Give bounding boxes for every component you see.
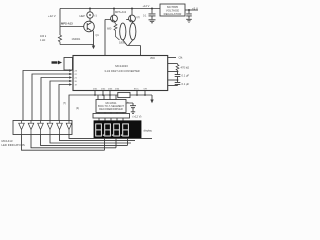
svg-text:display: display <box>144 128 153 132</box>
svg-text:1N4001: 1N4001 <box>72 38 81 41</box>
svg-text:23: 23 <box>75 70 78 72</box>
svg-text:EOC: EOC <box>134 89 139 91</box>
svg-text:(7): (7) <box>63 102 66 105</box>
svg-text:MPS-A13: MPS-A13 <box>115 10 127 14</box>
svg-text:MC14433: MC14433 <box>115 64 128 68</box>
svg-text:1850: 1850 <box>119 40 126 44</box>
svg-text:0.1: 0.1 <box>143 15 147 18</box>
svg-text:+12 V: +12 V <box>143 4 150 8</box>
svg-text:0.1 μF: 0.1 μF <box>182 74 190 78</box>
svg-text:VDD: VDD <box>150 58 155 60</box>
svg-text:19: 19 <box>75 84 78 86</box>
svg-text:20: 20 <box>75 81 78 83</box>
svg-text:(-): (-) <box>95 14 98 18</box>
svg-text:Clk: Clk <box>179 56 184 60</box>
svg-text:1 kΩ: 1 kΩ <box>40 39 45 42</box>
svg-text:+5 V: +5 V <box>192 6 198 10</box>
svg-text:0.1 μF: 0.1 μF <box>182 82 190 86</box>
svg-text:LED INDICATORS: LED INDICATORS <box>2 143 25 147</box>
svg-text:100 k: 100 k <box>40 35 47 38</box>
svg-text:REGULATOR: REGULATOR <box>164 12 182 16</box>
svg-text:(4): (4) <box>76 107 79 110</box>
svg-text:470 kΩ: 470 kΩ <box>181 66 190 70</box>
svg-text:Q1: Q1 <box>96 34 100 37</box>
svg-text:680: 680 <box>107 27 112 31</box>
svg-text:MPS-A13: MPS-A13 <box>61 21 73 25</box>
svg-text:OR: OR <box>144 89 148 91</box>
svg-text:22: 22 <box>75 74 78 76</box>
svg-text:+: + <box>127 100 129 104</box>
svg-text:(+12 V): (+12 V) <box>133 115 142 119</box>
svg-text:3-1/2 DIGIT A/D CONVERTER: 3-1/2 DIGIT A/D CONVERTER <box>104 69 139 73</box>
svg-text:+12 V: +12 V <box>48 14 56 18</box>
svg-text:21: 21 <box>75 77 78 79</box>
svg-text:HEP: HEP <box>80 14 86 18</box>
svg-text:(2): (2) <box>137 16 140 19</box>
svg-text:DECODER/DRIVER: DECODER/DRIVER <box>99 107 123 111</box>
